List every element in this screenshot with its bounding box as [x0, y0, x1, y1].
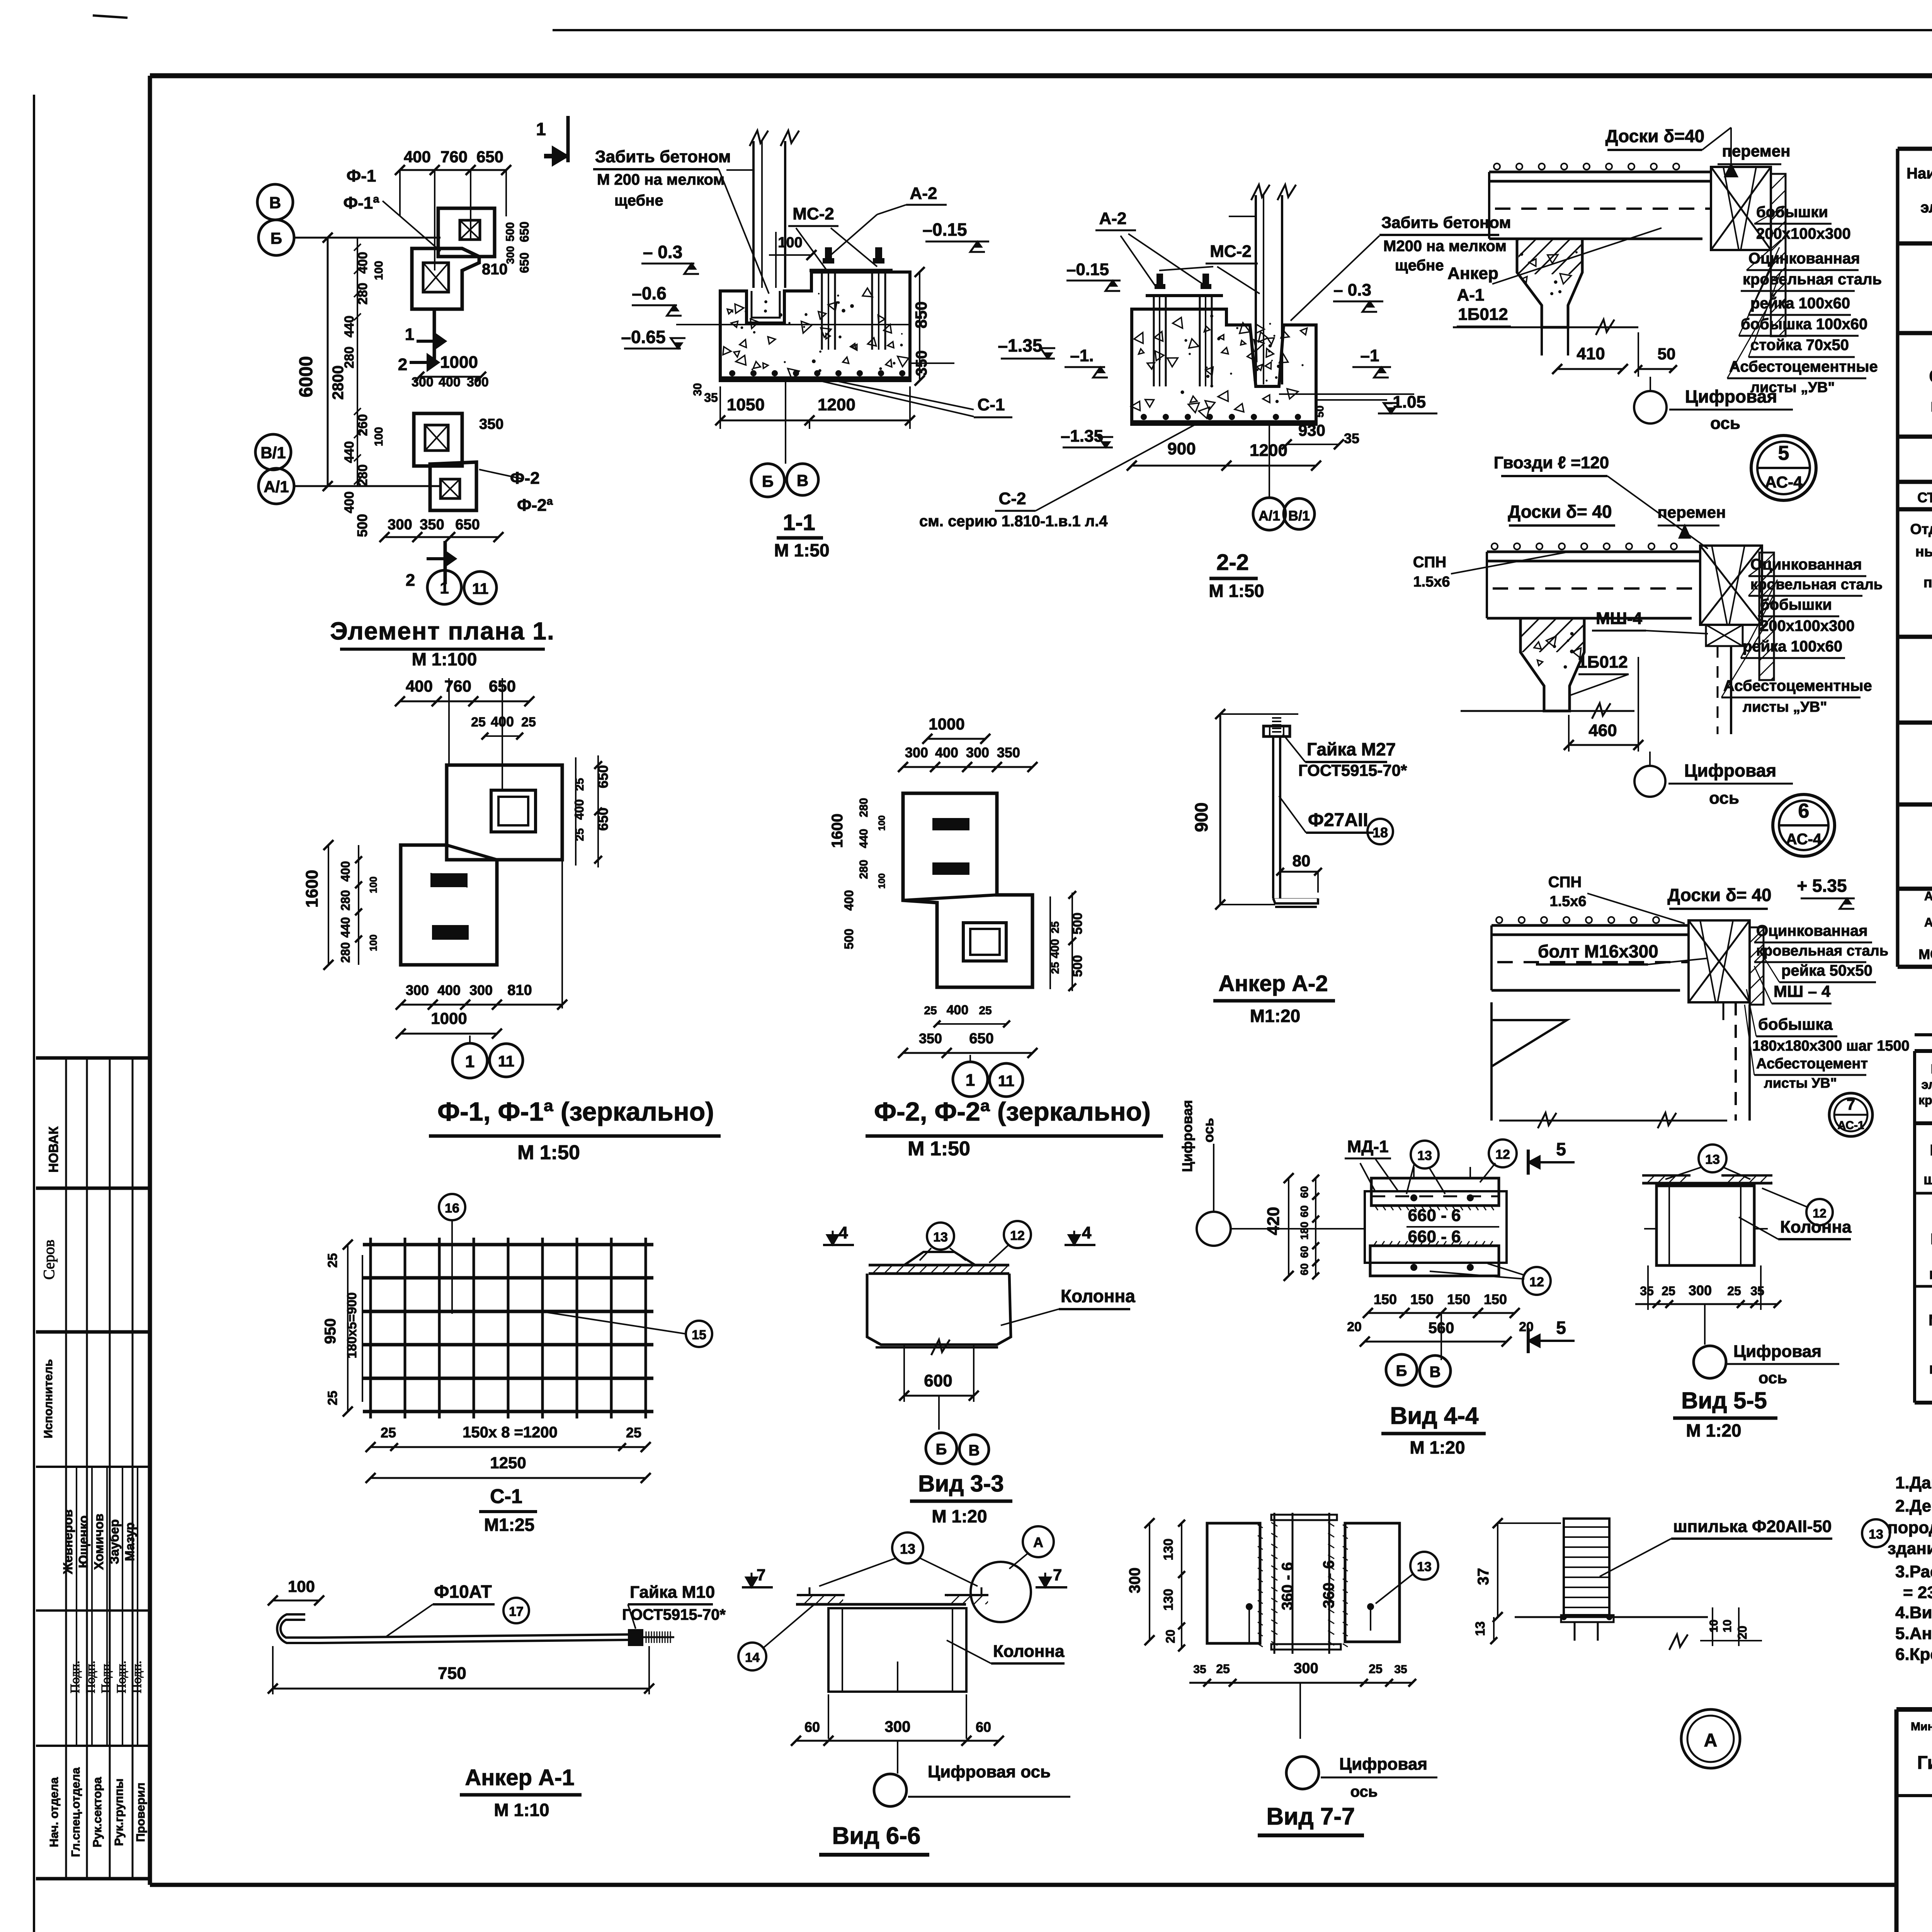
svg-text:260: 260	[355, 414, 370, 436]
svg-text:17: 17	[509, 1604, 524, 1619]
svg-text:60: 60	[1298, 1263, 1310, 1275]
svg-text:щебне: щебне	[614, 192, 663, 209]
svg-text:1000: 1000	[929, 715, 964, 733]
svg-text:крепления: крепления	[1918, 1093, 1932, 1107]
svg-text:стойка 70х50: стойка 70х50	[1750, 337, 1849, 354]
svg-text:5.Антикоррозийную защиту см: 5.Антикоррозийную защиту см. пояснительн…	[1895, 1624, 1932, 1643]
svg-text:листы „УВ": листы „УВ"	[1743, 699, 1827, 715]
svg-text:660 - 6: 660 - 6	[1408, 1227, 1461, 1246]
svg-text:МС-2: МС-2	[793, 204, 834, 223]
svg-text:300: 300	[467, 375, 489, 389]
svg-text:400: 400	[935, 745, 958, 760]
svg-text:1200: 1200	[818, 395, 855, 414]
svg-text:400: 400	[406, 677, 433, 695]
svg-text:35: 35	[1193, 1663, 1206, 1676]
svg-text:25: 25	[471, 715, 486, 730]
svg-text:–0.6: –0.6	[632, 283, 667, 303]
svg-text:Вид 5-5: Вид 5-5	[1681, 1388, 1767, 1413]
svg-text:Колонна: Колонна	[1061, 1286, 1135, 1306]
svg-text:В/1: В/1	[1288, 508, 1310, 524]
svg-text:–1: –1	[1361, 346, 1379, 365]
svg-text:бобышки: бобышки	[1760, 596, 1832, 613]
svg-text:11: 11	[472, 580, 488, 597]
svg-text:650: 650	[969, 1031, 993, 1047]
svg-text:50: 50	[1658, 345, 1676, 363]
svg-text:280: 280	[355, 283, 370, 305]
svg-text:А: А	[1704, 1730, 1718, 1751]
svg-text:1: 1	[465, 1052, 474, 1071]
svg-text:М 1:20: М 1:20	[1410, 1437, 1465, 1458]
svg-text:2-2: 2-2	[1216, 550, 1249, 575]
svg-text:шт.1392: шт.1392	[1923, 1172, 1932, 1188]
svg-text:Доски δ= 40: Доски δ= 40	[1508, 502, 1612, 522]
svg-text:Анкер: Анкер	[1447, 264, 1498, 283]
svg-text:М 1:10: М 1:10	[494, 1800, 549, 1820]
svg-text:1050: 1050	[727, 395, 765, 414]
svg-text:25: 25	[1662, 1284, 1675, 1298]
svg-text:180х180х300 шаг 1500: 180х180х300 шаг 1500	[1752, 1038, 1910, 1054]
svg-text:930: 930	[1298, 421, 1325, 439]
svg-text:Отдель-: Отдель-	[1910, 521, 1932, 537]
svg-text:100: 100	[778, 235, 802, 251]
svg-text:М 1:100: М 1:100	[412, 649, 477, 669]
svg-text:В: В	[1430, 1364, 1441, 1381]
svg-text:Исполнитель: Исполнитель	[41, 1359, 55, 1438]
svg-text:280: 280	[338, 890, 352, 910]
svg-text:1-1: 1-1	[783, 510, 815, 535]
svg-text:6: 6	[1798, 800, 1810, 822]
svg-text:бобышки: бобышки	[1756, 204, 1828, 221]
svg-text:360 - 6: 360 - 6	[1320, 1560, 1337, 1609]
svg-text:Вид 6-6: Вид 6-6	[832, 1823, 920, 1849]
svg-text:750: 750	[438, 1664, 466, 1683]
svg-text:4: 4	[1082, 1223, 1092, 1242]
svg-text:300: 300	[966, 745, 989, 760]
svg-text:950: 950	[322, 1318, 339, 1344]
svg-text:850: 850	[912, 301, 930, 328]
svg-text:–0.65: –0.65	[621, 327, 665, 347]
svg-text:300: 300	[406, 982, 429, 998]
svg-text:12: 12	[1529, 1275, 1544, 1289]
svg-text:300: 300	[412, 375, 434, 389]
svg-text:400: 400	[439, 375, 461, 389]
svg-text:440: 440	[342, 441, 357, 463]
svg-text:Оцинкованная: Оцинкованная	[1748, 250, 1860, 267]
svg-text:1.5х6: 1.5х6	[1413, 574, 1450, 590]
svg-text:350: 350	[420, 517, 444, 533]
svg-text:Цифровая: Цифровая	[1179, 1100, 1195, 1172]
svg-text:Колонна: Колонна	[993, 1642, 1065, 1661]
svg-text:400: 400	[404, 148, 431, 166]
svg-text:Министерство сельского хозяйст: Министерство сельского хозяйства СССР	[1911, 1720, 1932, 1733]
svg-text:25: 25	[1727, 1284, 1741, 1298]
svg-text:МШ – 4: МШ – 4	[1774, 982, 1831, 1000]
svg-text:М 1:50: М 1:50	[1209, 581, 1264, 601]
svg-text:Ф-1, Ф-1ª (зеркально): Ф-1, Ф-1ª (зеркально)	[437, 1097, 714, 1126]
svg-text:МШ-4: МШ-4	[1930, 1142, 1932, 1159]
svg-text:150: 150	[1447, 1291, 1470, 1307]
svg-text:ГОСТ5915-70*: ГОСТ5915-70*	[622, 1606, 726, 1623]
svg-text:В/1: В/1	[260, 444, 286, 462]
svg-text:20: 20	[1735, 1626, 1749, 1639]
svg-text:280: 280	[342, 347, 357, 369]
svg-text:В: В	[797, 471, 808, 490]
svg-text:13: 13	[1417, 1148, 1432, 1163]
svg-text:МШ-4: МШ-4	[1596, 609, 1643, 628]
svg-text:7: 7	[1847, 1096, 1855, 1113]
svg-text:Проверил: Проверил	[134, 1782, 147, 1842]
svg-text:М 1:50: М 1:50	[908, 1138, 970, 1160]
svg-text:300: 300	[885, 1718, 911, 1735]
svg-text:ось: ось	[1201, 1118, 1216, 1143]
svg-text:МВ-5: МВ-5	[1929, 1312, 1932, 1329]
svg-text:11: 11	[998, 1073, 1014, 1090]
svg-text:25: 25	[1216, 1662, 1230, 1676]
svg-text:1.Данный лист рассматривать: 1.Данный лист рассматривать совместно с …	[1895, 1473, 1932, 1492]
svg-text:1: 1	[405, 325, 414, 344]
svg-text:Ф-1ª: Ф-1ª	[344, 194, 380, 213]
svg-text:12: 12	[1495, 1147, 1510, 1162]
svg-text:Доски δ= 40: Доски δ= 40	[1667, 885, 1771, 905]
svg-text:Анкер А-2: Анкер А-2	[1218, 971, 1328, 996]
svg-text:Серов: Серов	[40, 1240, 58, 1280]
svg-text:Жевнеров: Жевнеров	[61, 1509, 75, 1574]
svg-text:300: 300	[905, 745, 928, 760]
svg-text:1600: 1600	[303, 870, 321, 908]
svg-text:Цифровая: Цифровая	[1684, 760, 1776, 781]
svg-text:Колонна: Колонна	[1780, 1218, 1852, 1236]
svg-text:900: 900	[1191, 803, 1211, 832]
svg-text:100: 100	[877, 873, 887, 889]
svg-text:болт М16х300: болт М16х300	[1538, 941, 1658, 961]
svg-text:25: 25	[381, 1425, 396, 1440]
svg-text:Оцинкованная: Оцинкованная	[1750, 556, 1862, 573]
svg-text:Рук.группы: Рук.группы	[112, 1779, 126, 1846]
svg-text:100: 100	[372, 427, 385, 446]
svg-text:2: 2	[398, 355, 407, 374]
svg-text:Подп.: Подп.	[114, 1661, 129, 1694]
svg-text:25: 25	[924, 1004, 937, 1017]
svg-text:350: 350	[479, 416, 503, 432]
svg-text:Ф27АII: Ф27АII	[1308, 810, 1368, 830]
svg-text:7: 7	[757, 1566, 765, 1584]
svg-text:Ф-2: Ф-2	[510, 469, 540, 488]
svg-text:410: 410	[1577, 344, 1605, 363]
svg-text:150: 150	[1374, 1291, 1397, 1307]
svg-text:6000: 6000	[296, 356, 316, 398]
svg-text:щебне: щебне	[1395, 257, 1444, 274]
svg-text:кровельная сталь: кровельная сталь	[1756, 943, 1888, 959]
svg-text:60: 60	[1298, 1246, 1310, 1258]
svg-text:МВ-1: МВ-1	[1930, 1231, 1932, 1248]
svg-text:Вид 4-4: Вид 4-4	[1390, 1403, 1479, 1429]
svg-text:Гайка М27: Гайка М27	[1307, 739, 1396, 759]
svg-text:–1.: –1.	[1070, 346, 1094, 365]
svg-text:100: 100	[367, 934, 379, 951]
svg-text:листы УВ": листы УВ"	[1764, 1075, 1837, 1091]
svg-text:Цифровая: Цифровая	[1339, 1755, 1427, 1774]
svg-text:перемен: перемен	[1658, 503, 1726, 521]
svg-text:ось: ось	[1709, 789, 1739, 808]
svg-text:Гайка М10: Гайка М10	[630, 1583, 715, 1602]
svg-text:760: 760	[440, 148, 468, 166]
svg-text:С-1: С-1	[978, 395, 1005, 414]
svg-text:500: 500	[842, 929, 856, 949]
svg-text:В: В	[269, 194, 281, 212]
svg-text:АС-4: АС-4	[1786, 831, 1822, 848]
svg-text:60: 60	[976, 1719, 991, 1735]
svg-text:300: 300	[1689, 1282, 1712, 1298]
svg-text:АС-4: АС-4	[1765, 473, 1803, 491]
svg-text:СТ-4 шт.114: СТ-4 шт.114	[1917, 490, 1932, 505]
svg-text:13: 13	[1473, 1621, 1488, 1636]
svg-text:С-1: С-1	[490, 1485, 522, 1508]
svg-text:МС-2 шт 16: МС-2 шт 16	[1918, 946, 1932, 962]
svg-text:360 - 6: 360 - 6	[1279, 1562, 1296, 1611]
svg-text:20: 20	[1519, 1320, 1534, 1334]
svg-text:Б: Б	[762, 472, 774, 490]
svg-text:Гипросельхозптицепром: Гипросельхозптицепром	[1917, 1753, 1932, 1773]
svg-text:37: 37	[1475, 1568, 1492, 1585]
svg-text:1Б012: 1Б012	[1578, 653, 1628, 672]
svg-text:здание – 15.85 м³: здание – 15.85 м³	[1888, 1539, 1932, 1558]
svg-text:50: 50	[1314, 405, 1326, 417]
svg-text:М 1:20: М 1:20	[932, 1506, 987, 1526]
svg-text:1: 1	[536, 119, 546, 139]
svg-text:Мазур: Мазур	[122, 1522, 137, 1561]
svg-text:1.5х6: 1.5х6	[1549, 893, 1586, 910]
svg-text:660 - 6: 660 - 6	[1408, 1206, 1461, 1225]
svg-text:5: 5	[1778, 442, 1789, 464]
svg-text:180: 180	[1298, 1222, 1310, 1240]
svg-text:бобышка 100х60: бобышка 100х60	[1741, 316, 1867, 333]
svg-text:2: 2	[406, 571, 415, 590]
svg-text:Анкер А-1: Анкер А-1	[1924, 889, 1932, 903]
svg-text:12: 12	[1010, 1228, 1025, 1243]
svg-text:М 1:20: М 1:20	[1686, 1420, 1741, 1440]
svg-text:420: 420	[1264, 1207, 1283, 1235]
svg-text:ГОСТ5915-70*: ГОСТ5915-70*	[1298, 761, 1407, 779]
svg-text:400: 400	[338, 861, 352, 881]
svg-text:400: 400	[355, 252, 370, 274]
svg-text:Доски δ=40: Доски δ=40	[1605, 126, 1704, 146]
svg-text:шт. 4: шт. 4	[1930, 395, 1932, 415]
svg-text:Цифровая ось: Цифровая ось	[928, 1762, 1051, 1781]
svg-text:Ф-1: Ф-1	[347, 167, 376, 185]
svg-text:20: 20	[1347, 1320, 1362, 1334]
svg-text:200х100х300: 200х100х300	[1756, 225, 1851, 242]
svg-text:Забить бетоном: Забить бетоном	[595, 147, 731, 166]
svg-text:4.Виды 3-3 и 6-6 см. на ли: 4.Виды 3-3 и 6-6 см. на листе АС-2.	[1895, 1603, 1932, 1622]
svg-text:перемен: перемен	[1722, 142, 1791, 160]
svg-text:350: 350	[997, 745, 1020, 760]
svg-text:Подп.: Подп.	[83, 1661, 98, 1694]
svg-text:440: 440	[857, 829, 870, 848]
svg-text:кровельная сталь: кровельная сталь	[1750, 577, 1883, 593]
svg-text:15: 15	[692, 1328, 706, 1342]
svg-text:150: 150	[1410, 1291, 1434, 1307]
svg-text:1600: 1600	[829, 814, 846, 848]
svg-text:10: 10	[1721, 1619, 1734, 1632]
svg-text:+ 5.35: + 5.35	[1797, 876, 1847, 896]
svg-text:7: 7	[1053, 1566, 1062, 1584]
svg-text:1250: 1250	[490, 1454, 526, 1472]
svg-text:рейка 100х60: рейка 100х60	[1743, 638, 1842, 655]
svg-text:М1:20: М1:20	[1250, 1006, 1300, 1026]
svg-text:М 1:50: М 1:50	[517, 1141, 580, 1164]
svg-text:5: 5	[1556, 1318, 1566, 1338]
svg-text:шт.24: шт.24	[1929, 1360, 1932, 1377]
svg-text:А/1: А/1	[1259, 508, 1280, 524]
svg-text:80: 80	[1293, 852, 1311, 870]
svg-text:Б: Б	[1396, 1362, 1407, 1379]
svg-text:Подп.: Подп.	[68, 1661, 82, 1694]
svg-text:100: 100	[288, 1577, 315, 1595]
svg-text:350: 350	[919, 1031, 942, 1046]
svg-text:10: 10	[1708, 1619, 1720, 1632]
svg-text:60: 60	[1298, 1205, 1310, 1217]
svg-text:400: 400	[947, 1003, 969, 1017]
svg-text:25: 25	[626, 1425, 641, 1440]
svg-text:Заубер: Заубер	[107, 1519, 121, 1564]
svg-text:Наименован.: Наименован.	[1906, 165, 1932, 182]
svg-text:Асбестоцементные: Асбестоцементные	[1729, 358, 1878, 375]
svg-text:1000: 1000	[440, 353, 478, 372]
svg-text:35: 35	[1640, 1284, 1654, 1298]
svg-text:35: 35	[1394, 1663, 1407, 1676]
svg-text:Цифровая: Цифровая	[1685, 386, 1777, 406]
svg-text:5: 5	[1556, 1139, 1566, 1159]
svg-text:11: 11	[498, 1053, 514, 1070]
svg-text:элемента: элемента	[1921, 1077, 1932, 1092]
svg-text:В: В	[969, 1442, 980, 1459]
svg-text:650: 650	[517, 221, 531, 242]
svg-text:А-2: А-2	[1099, 209, 1127, 228]
svg-text:810: 810	[482, 261, 508, 278]
svg-text:30: 30	[691, 383, 704, 396]
svg-text:300: 300	[1294, 1660, 1318, 1677]
svg-text:Ф10АТ: Ф10АТ	[434, 1582, 492, 1602]
svg-text:СПН: СПН	[1548, 874, 1582, 891]
svg-text:Цифровая: Цифровая	[1733, 1342, 1821, 1361]
svg-text:810: 810	[507, 982, 532, 998]
svg-text:Ф-2, Ф-2ª (зеркально): Ф-2, Ф-2ª (зеркально)	[874, 1097, 1151, 1126]
svg-text:рейка 100х60: рейка 100х60	[1750, 295, 1850, 312]
svg-text:–0.15: –0.15	[1066, 260, 1109, 279]
svg-text:300: 300	[388, 517, 412, 533]
svg-text:–0.15: –0.15	[922, 219, 967, 240]
svg-text:35: 35	[704, 391, 718, 405]
svg-text:1Б012: 1Б012	[1458, 305, 1508, 324]
svg-text:100: 100	[372, 261, 385, 280]
svg-text:Асбестоцемент: Асбестоцемент	[1756, 1056, 1868, 1072]
svg-text:Ф-2ª: Ф-2ª	[517, 496, 553, 515]
svg-text:бобышка: бобышка	[1758, 1015, 1833, 1033]
svg-text:25: 25	[325, 1253, 340, 1268]
svg-text:2800: 2800	[330, 366, 347, 400]
svg-text:МД-1: МД-1	[1347, 1137, 1388, 1156]
svg-text:Б: Б	[936, 1441, 947, 1458]
svg-text:Б: Б	[270, 229, 282, 247]
svg-text:Гвозди ℓ =120: Гвозди ℓ =120	[1494, 453, 1609, 472]
svg-text:Асбестоцементные: Асбестоцементные	[1723, 677, 1872, 694]
svg-text:280: 280	[857, 798, 870, 817]
svg-text:25: 25	[979, 1004, 992, 1017]
svg-text:ные: ные	[1915, 544, 1932, 560]
svg-text:400: 400	[842, 890, 856, 910]
svg-text:пород влажностью не более 2: пород влажностью не более 20% . Общий ра…	[1888, 1518, 1932, 1537]
svg-text:150х 8 =1200: 150х 8 =1200	[463, 1424, 558, 1441]
svg-text:280: 280	[355, 464, 370, 486]
svg-text:60: 60	[1298, 1186, 1310, 1198]
svg-text:– 0.3: – 0.3	[643, 242, 682, 262]
svg-text:Оцинкованная: Оцинкованная	[1756, 922, 1868, 939]
svg-text:3.Расход бетона на фундамен: 3.Расход бетона на фундаменты Ф-1 и Ф-2 …	[1895, 1562, 1932, 1581]
svg-text:150: 150	[1484, 1291, 1507, 1307]
svg-text:Вид 3-3: Вид 3-3	[918, 1471, 1004, 1497]
svg-text:АС-1: АС-1	[1837, 1119, 1864, 1132]
svg-text:Гл.спец.отдела: Гл.спец.отдела	[69, 1767, 82, 1857]
svg-text:6.Крепежные элементы изготав: 6.Крепежные элементы изготавливать изста…	[1895, 1645, 1932, 1664]
svg-text:440: 440	[342, 316, 357, 338]
svg-text:16: 16	[445, 1201, 459, 1216]
svg-text:НОВАК: НОВАК	[46, 1126, 61, 1172]
svg-text:35: 35	[1750, 1284, 1764, 1298]
svg-text:650: 650	[476, 148, 503, 166]
svg-text:– 0.3: – 0.3	[1333, 281, 1371, 299]
svg-text:300: 300	[469, 982, 493, 998]
svg-text:300: 300	[1126, 1568, 1143, 1594]
svg-text:35: 35	[1344, 430, 1359, 446]
svg-text:ось: ось	[1710, 414, 1740, 433]
svg-text:М 200 на мелком: М 200 на мелком	[597, 171, 724, 188]
svg-text:280: 280	[338, 942, 352, 963]
svg-text:200х100х300: 200х100х300	[1760, 617, 1855, 634]
svg-text:13: 13	[1417, 1560, 1432, 1574]
svg-text:400: 400	[572, 799, 586, 820]
svg-text:350: 350	[913, 350, 930, 376]
svg-text:650: 650	[517, 252, 531, 273]
svg-text:М200 на мелком: М200 на мелком	[1383, 238, 1507, 255]
svg-text:1000: 1000	[431, 1009, 467, 1027]
svg-text:Анкер А-2: Анкер А-2	[1924, 915, 1932, 929]
svg-text:460: 460	[1588, 721, 1617, 740]
svg-text:элемента: элемента	[1920, 199, 1932, 216]
svg-text:Нач. отдела: Нач. отдела	[47, 1777, 61, 1847]
svg-text:900: 900	[1167, 439, 1196, 458]
svg-text:СПН: СПН	[1413, 554, 1447, 571]
svg-text:180х5=900: 180х5=900	[345, 1292, 359, 1358]
svg-text:500: 500	[504, 222, 517, 241]
svg-text:= 23.2 м³: = 23.2 м³	[1903, 1583, 1932, 1602]
svg-text:поз: поз	[1923, 575, 1932, 591]
svg-text:130: 130	[1161, 1589, 1176, 1611]
svg-text:шпилька Ф20АII-50: шпилька Ф20АII-50	[1673, 1517, 1832, 1536]
svg-text:см. серию 1.810-1.в.1 л.4: см. серию 1.810-1.в.1 л.4	[919, 513, 1108, 530]
svg-text:А-2: А-2	[910, 184, 937, 203]
svg-text:А/1: А/1	[264, 478, 289, 496]
svg-text:Анкер А-1: Анкер А-1	[465, 1765, 574, 1790]
svg-text:13: 13	[900, 1541, 915, 1557]
svg-text:Элемент плана 1.: Элемент плана 1.	[330, 617, 555, 645]
svg-text:4: 4	[838, 1223, 848, 1242]
svg-text:М1:25: М1:25	[484, 1515, 534, 1535]
svg-text:Подп.: Подп.	[99, 1661, 113, 1694]
svg-text:А-1: А-1	[1457, 286, 1485, 304]
svg-text:13: 13	[1869, 1527, 1883, 1542]
svg-text:рейка 50х50: рейка 50х50	[1781, 962, 1872, 979]
svg-text:шт.24: шт.24	[1929, 1265, 1932, 1282]
